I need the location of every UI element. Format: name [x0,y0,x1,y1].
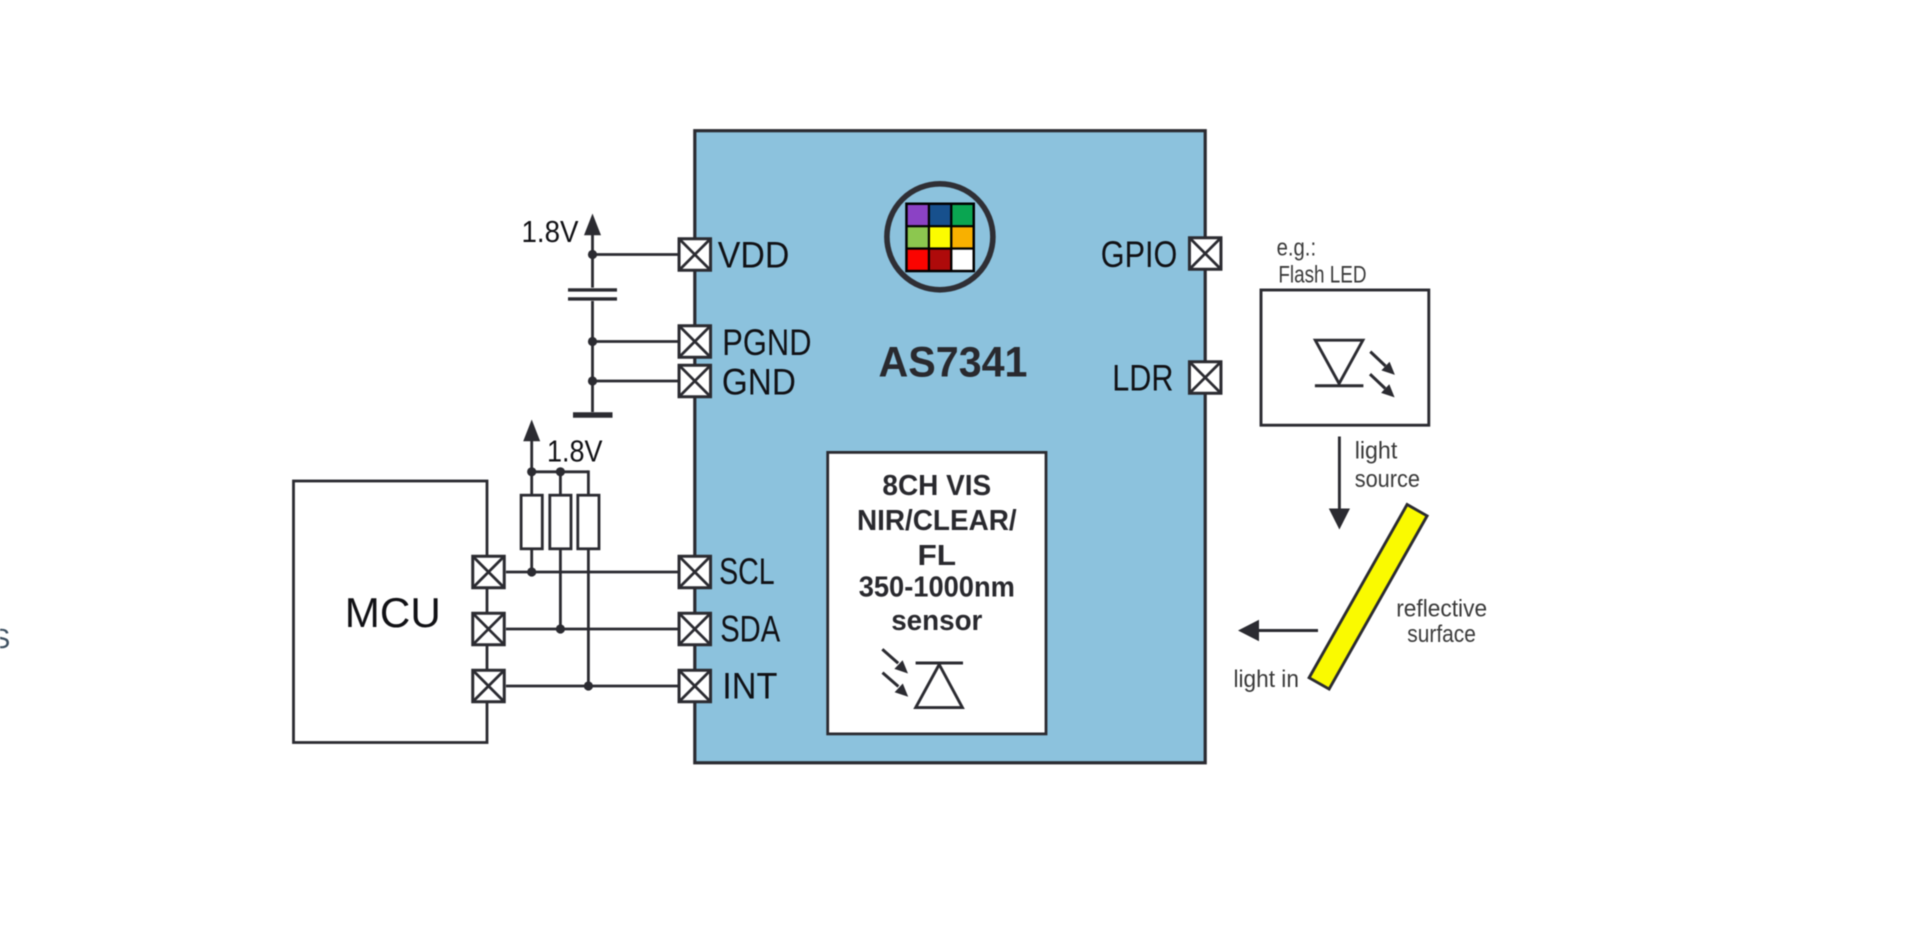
resistor R2 (SDA pull-up) [550,495,571,549]
svg-text:AS7341: AS7341 [879,338,1028,386]
svg-text:8CH VIS: 8CH VIS [882,470,991,502]
photodiode symbol triangle [916,665,963,708]
pin GPIO [1189,238,1221,270]
sensor description text [857,470,1017,637]
svg-text:light: light [1355,438,1398,465]
light source arrow [1329,437,1350,530]
wire rail to R2 [559,472,562,495]
svg-text:surface: surface [1407,621,1476,648]
junction at PGND node [588,337,597,346]
chip AS7341 body [695,131,1205,763]
pin LDR [1189,362,1221,394]
svg-text:VDD: VDD [718,234,790,276]
svg-text:MCU: MCU [345,589,441,636]
junction INT net [584,681,593,690]
resistor R3 (INT pull-up) [578,495,599,549]
power symbol 1.8V arrow (top) [584,214,601,236]
wire rail to R1 [530,472,533,495]
capacitor C1 plates [568,290,617,299]
svg-text:light in: light in [1234,666,1299,693]
photodiode symbol cathode bar [916,662,963,665]
svg-text:SDA: SDA [720,607,780,649]
color sensor icon 3x3 filter grid [905,203,975,273]
LED emitted light arrow 1 [1370,352,1395,375]
wire 1.8V bus above capacitor [591,235,594,288]
wire INT net [506,685,678,688]
svg-text:GPIO: GPIO [1101,233,1178,275]
pin MCU INT [473,670,505,702]
pin MCU SCL [473,556,505,588]
svg-text:INT: INT [722,664,777,706]
MCU box [294,481,488,743]
junction SDA net [556,624,565,633]
svg-text:sensor: sensor [891,605,982,637]
ground symbol [573,412,613,418]
LED emitted light arrow 2 [1370,374,1395,397]
reflective surface bar [1309,505,1427,690]
Flash LED box [1261,290,1429,425]
svg-text:GND: GND [722,360,796,402]
wire rail to R3 [587,470,590,495]
pin SCL [679,556,711,588]
svg-text:FL: FL [918,540,957,572]
wire SCL net [506,571,678,574]
wire R2 to SDA net [559,549,562,629]
pin MCU SDA [473,613,505,645]
wire R1 to SCL net [530,549,533,572]
power symbol 1.8V arrow (pull-up rail) [523,420,540,472]
wire pull-up rail [532,470,589,473]
svg-text:LDR: LDR [1112,357,1173,399]
svg-text:e.g.:: e.g.: [1277,235,1317,262]
junction at VDD node [588,250,597,259]
wire VDD to 1.8V node [593,253,679,256]
svg-text:SCL: SCL [719,550,775,592]
svg-text:reflective: reflective [1396,595,1487,622]
wire SDA net [506,628,678,631]
svg-text:source: source [1355,466,1420,493]
junction rail at R2 [556,467,565,476]
LED symbol cathode bar [1315,384,1364,387]
light in arrow [1238,620,1318,642]
svg-text:S: S [0,623,10,654]
svg-text:Flash LED: Flash LED [1278,261,1366,288]
pin SDA [679,613,711,645]
pin INT [679,670,711,702]
svg-text:NIR/CLEAR/: NIR/CLEAR/ [857,505,1017,537]
svg-text:1.8V: 1.8V [547,434,603,468]
sensor description box [828,452,1046,734]
photodiode incident light arrow 2 [883,673,909,697]
wire R3 to INT net [587,549,590,686]
color sensor icon ring [887,184,993,290]
resistor R1 (SCL pull-up) [521,495,542,549]
pin PGND [679,326,711,358]
svg-text:PGND: PGND [722,321,811,363]
wire PGND to node [593,340,679,343]
junction SCL net [527,567,536,576]
junction rail at R1 [527,467,536,476]
svg-text:1.8V: 1.8V [522,214,579,249]
pin VDD [679,239,711,271]
wire GND to node [593,380,679,383]
wire bus below capacitor to ground [591,301,594,412]
svg-text:350-1000nm: 350-1000nm [859,572,1015,604]
junction at GND node [588,376,597,385]
LED symbol triangle [1315,340,1363,383]
photodiode incident light arrow 1 [882,649,908,673]
pin GND [679,365,711,397]
